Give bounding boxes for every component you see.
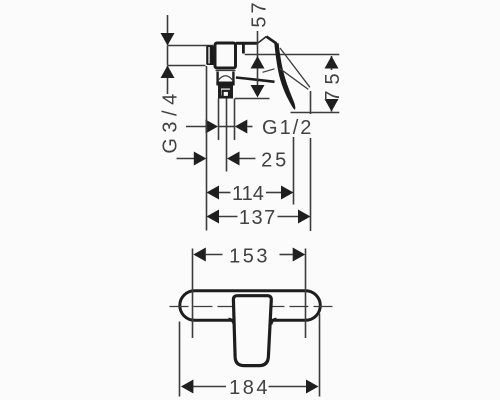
- arrow down 57: [251, 85, 265, 98]
- nut slit highlight: [208, 47, 209, 64]
- svg-text:25: 25: [261, 150, 289, 172]
- lever blade: [274, 43, 295, 110]
- dimension G1/2 middle segment: [219, 126, 235, 128]
- extension stub lever end: [310, 91, 312, 114]
- svg-text:75: 75: [322, 67, 344, 101]
- arrow down to upper G3/4 extension: [161, 33, 175, 46]
- lever peak rising edge: [258, 37, 266, 44]
- lever neck underline: [263, 69, 275, 73]
- arrow left G1/2: [235, 120, 248, 134]
- svg-text:153: 153: [229, 245, 270, 267]
- escutcheon dome arc: [219, 76, 233, 80]
- wall connection nut: [206, 46, 214, 66]
- ref line 57 bottom: [235, 98, 270, 100]
- extension line nut bottom: [168, 65, 206, 67]
- extension line 184 right: [319, 314, 321, 397]
- mixer body (side view): [215, 43, 236, 68]
- extension line nut top: [168, 45, 214, 47]
- dimension 57 shaft: [257, 31, 259, 86]
- arrow left 114: [207, 186, 220, 200]
- arrow left 153: [193, 248, 206, 262]
- svg-text:137: 137: [239, 207, 277, 229]
- lever peak falling edge: [266, 37, 276, 44]
- lever cap rear bar: [242, 44, 245, 54]
- arrow right 25: [194, 152, 207, 166]
- lever cap top edge: [236, 42, 258, 45]
- arrow right 184: [306, 380, 319, 394]
- body joint line: [216, 70, 236, 72]
- cap bottom skirt curve: [236, 78, 275, 82]
- svg-text:G1/2: G1/2: [262, 117, 313, 139]
- escutcheon bottom band: [216, 82, 234, 86]
- svg-text:G3/4: G3/4: [160, 88, 182, 153]
- extension line 184 left: [179, 322, 181, 397]
- outlet centerline: [226, 99, 228, 172]
- front view centerline: [170, 306, 338, 308]
- handle (front view): [233, 296, 271, 366]
- dimension 75 shaft: [331, 56, 333, 112]
- arrow left 137: [207, 210, 220, 224]
- ref line top (57/75): [245, 54, 340, 56]
- extension line wall center: [206, 66, 208, 231]
- dimension 137: [219, 216, 299, 218]
- outlet pipe left edge: [218, 99, 220, 141]
- extension line 153 right: [305, 249, 307, 339]
- arrow up 75: [325, 56, 339, 69]
- mixer bar (front view pill): [180, 291, 320, 321]
- arrow right 137: [298, 210, 311, 224]
- dimension 184: [193, 386, 306, 388]
- outlet small square: [223, 91, 229, 97]
- arrow right 153: [293, 248, 306, 262]
- arrow left 184: [181, 380, 194, 394]
- arrow up to lower G3/4 extension: [161, 66, 175, 79]
- extension line lever end: [310, 138, 312, 231]
- arrow down 75: [325, 99, 339, 112]
- dimension 114: [219, 192, 281, 194]
- ref line 75 bottom: [291, 112, 340, 114]
- extension line lever tip: [293, 137, 295, 205]
- dimension 25 lead line right: [239, 158, 255, 160]
- handle left fillet: [229, 319, 235, 325]
- handle right fillet: [271, 319, 277, 325]
- arrow left 25: [227, 152, 240, 166]
- dimension 153: [206, 254, 293, 256]
- lever far edge line B: [280, 68, 309, 89]
- dimension G1/2 lead line right: [247, 126, 252, 128]
- svg-text:57: 57: [249, 0, 271, 28]
- arrow up 57: [251, 56, 265, 69]
- outlet box: [220, 87, 232, 97]
- dimension G1/2 lead line left: [186, 126, 206, 128]
- dimension 25 lead line left: [177, 158, 195, 160]
- extension line 153 left: [192, 249, 194, 339]
- arrow right 114: [281, 186, 294, 200]
- svg-text:184: 184: [229, 377, 270, 399]
- lever far edge line A: [280, 48, 310, 87]
- svg-text:114: 114: [232, 183, 264, 205]
- dimension G3/4 vertical line: [167, 15, 169, 94]
- label 75 background: [324, 70, 340, 99]
- escutcheon side walls: [218, 72, 234, 85]
- outlet pipe right edge: [234, 99, 236, 141]
- arrow right G1/2: [206, 120, 219, 134]
